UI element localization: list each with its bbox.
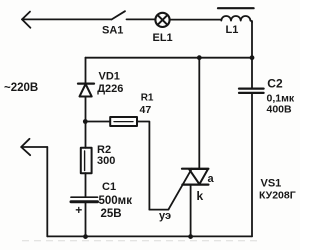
svg-text:VD1: VD1 — [99, 71, 120, 83]
wire: R1 branch from left vertical — [85, 121, 110, 123]
svg-text:уэ: уэ — [159, 210, 171, 222]
inductor L1 core bar — [218, 7, 254, 9]
wire: left mid arrow — [21, 139, 30, 155]
inductor L1 coil — [221, 16, 252, 22]
wire: right vertical from C2 to bottom — [251, 94, 253, 237]
wire: left lower vertical — [46, 147, 48, 236]
triac VS1 triangle — [189, 169, 208, 184]
wire: diode to R2 — [85, 97, 87, 148]
junction: right corner of mid bus — [250, 55, 255, 60]
resistor R1 inner scan line — [114, 121, 133, 123]
wire: left vertical to diode — [85, 58, 87, 84]
svg-text:VS1: VS1 — [261, 178, 282, 190]
scan artifact line below bottom bus — [22, 240, 260, 242]
wire: anode vertical from bus to triac — [198, 58, 200, 169]
wire: R1 to gate drop — [137, 122, 149, 210]
capacitor C1 top plate — [71, 196, 98, 198]
capacitor C2 bottom plate — [239, 92, 264, 94]
triac VS1 gate lead — [168, 169, 191, 210]
capacitor C1 bottom plate — [71, 200, 98, 203]
junction: anode tap on mid bus — [197, 55, 202, 60]
wire: top mains lead arrow — [22, 12, 30, 28]
resistor R1 body — [110, 117, 137, 126]
wire: lamp to inductor — [170, 19, 222, 21]
svg-text:R1: R1 — [141, 93, 154, 104]
wire: right vertical from L1 to C2 — [251, 21, 253, 88]
svg-text:+: + — [75, 203, 82, 217]
wire: C1 to bottom bus — [85, 203, 87, 236]
junction: C1 at bottom bus — [83, 234, 88, 239]
lamp EL1 cross — [158, 15, 168, 25]
wire: mid horizontal bus — [86, 57, 253, 59]
svg-text:EL1: EL1 — [153, 32, 173, 44]
svg-text:SA1: SA1 — [102, 24, 123, 36]
switch SA1 blade — [112, 11, 125, 19]
diode VD1 triangle — [80, 84, 92, 97]
wire: cathode lead to bottom bus — [190, 185, 192, 237]
svg-text:47: 47 — [140, 104, 152, 116]
svg-text:~220В: ~220В — [4, 82, 38, 94]
resistor R2 body — [81, 148, 92, 173]
lamp EL1 circle — [155, 13, 169, 27]
svg-text:Д226: Д226 — [97, 83, 123, 95]
capacitor C2 top plate — [239, 87, 264, 89]
resistor R2 inner scan line — [84, 151, 86, 171]
svg-text:25В: 25В — [101, 208, 122, 220]
wire: top lead to switch — [22, 18, 112, 20]
triac VS1 bottom bar — [182, 184, 208, 186]
wire: switch to lamp — [127, 18, 156, 20]
svg-text:C2: C2 — [267, 76, 283, 90]
svg-text:300: 300 — [97, 155, 115, 167]
wire: bottom bus — [47, 235, 252, 237]
wire: mid lead horizontal — [21, 146, 47, 148]
diode VD1 cathode bar — [78, 82, 94, 84]
junction: R1 branch — [83, 119, 88, 124]
svg-text:k: k — [197, 189, 204, 203]
svg-text:a: a — [208, 173, 215, 185]
wire: R2 to C1 — [85, 173, 87, 196]
junction: cathode at bottom bus — [188, 234, 193, 239]
svg-text:400В: 400В — [267, 103, 293, 115]
svg-text:КУ208Г: КУ208Г — [259, 189, 296, 201]
svg-text:L1: L1 — [226, 24, 239, 36]
wire: gate bottom horizontal — [149, 209, 168, 211]
svg-text:C1: C1 — [102, 181, 116, 193]
triac VS1 top bar — [182, 168, 208, 170]
svg-text:500мк: 500мк — [99, 195, 133, 207]
